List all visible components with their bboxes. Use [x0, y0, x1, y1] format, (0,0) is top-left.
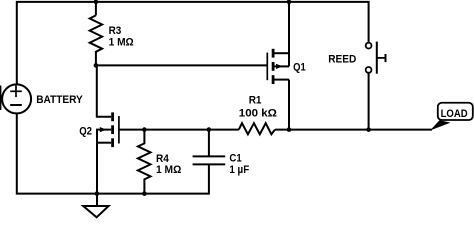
svg-text:BATTERY: BATTERY [36, 94, 83, 106]
svg-text:R1: R1 [249, 95, 262, 107]
svg-text:100 kΩ: 100 kΩ [239, 108, 277, 120]
svg-text:REED: REED [328, 54, 356, 66]
svg-text:1 MΩ: 1 MΩ [156, 164, 181, 176]
svg-text:LOAD: LOAD [441, 108, 468, 120]
svg-text:R3: R3 [109, 25, 122, 37]
svg-text:C1: C1 [229, 153, 242, 165]
svg-text:Q1: Q1 [293, 62, 306, 74]
svg-text:R4: R4 [156, 153, 169, 165]
svg-text:1 MΩ: 1 MΩ [109, 36, 134, 48]
svg-text:1 µF: 1 µF [229, 164, 249, 176]
svg-text:Q2: Q2 [79, 125, 92, 137]
